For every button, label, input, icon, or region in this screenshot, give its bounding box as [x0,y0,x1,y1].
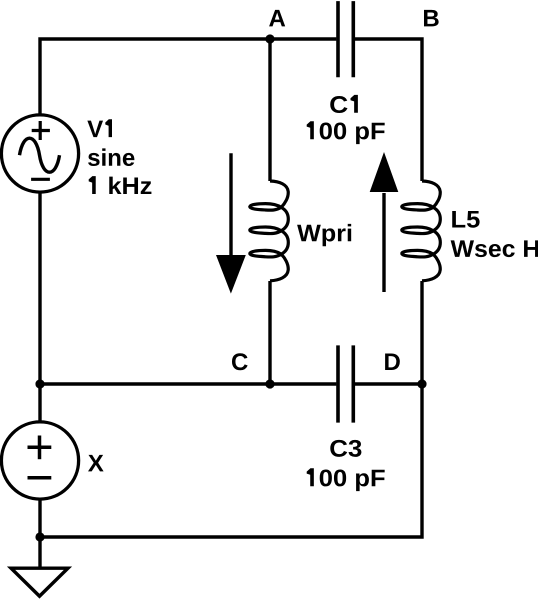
label L5 [452,211,479,228]
wire Wpri bottom to node C [268,281,271,384]
label 100 pF (C3) [307,468,385,491]
junction dot node A [265,34,274,43]
wire C row right: C3 right plate to node D [355,382,422,385]
ground symbol [7,567,72,599]
wire top-left rail: V1 top up and across to C1 left plate [40,39,336,115]
wire C row left: left rail to C3 left plate [40,382,336,385]
junction dot left rail / C row [35,379,44,388]
wire node A vertical down to Wpri top [268,39,271,181]
label Wsec H [451,240,538,257]
label 1 kHz [89,176,152,194]
node label A [269,10,285,27]
label 100 pF (C1) [307,121,385,144]
node label C [232,353,248,370]
inductor L5 Wsec coil [402,181,441,281]
label X [88,455,104,472]
junction dot node D [417,379,426,388]
junction dot node C [265,379,274,388]
wire left rail: V1 bottom down to X top [38,192,41,422]
wire top-right: C1 right plate to corner at B, down to L5 top [355,39,422,181]
wire L5 bottom to node D [420,281,423,384]
node label D [385,353,400,370]
label C1 [330,95,358,113]
capacitor C3 [338,345,353,422]
inductor Wpri coil [250,181,289,281]
current arrow up (L5) [382,193,385,292]
current arrow down (Wpri) [229,153,232,256]
label V1 [87,119,112,137]
wire right rail lower and bottom rail back to left [40,384,422,537]
voltage source V1 (sine) [1,115,78,192]
wire X bottom to ground [38,499,41,567]
label C3 [330,440,361,457]
junction dot left rail / bottom rail [35,532,44,541]
label Wpri [297,224,351,246]
node label B [424,10,439,27]
capacitor C1 [338,1,353,77]
voltage source X [1,422,78,499]
label sine [88,148,134,166]
